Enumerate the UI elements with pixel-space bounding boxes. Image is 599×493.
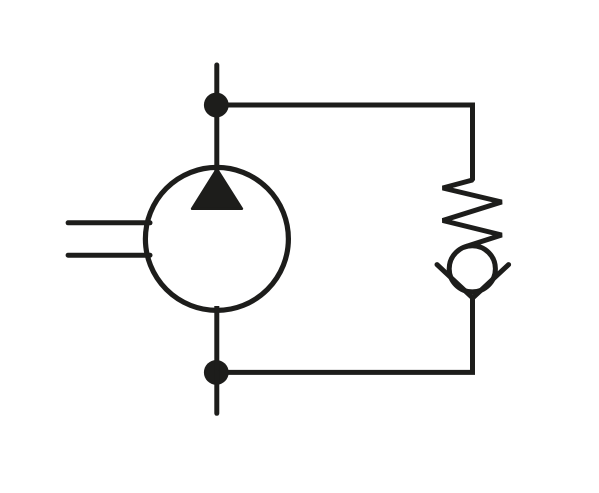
check valve ball bbox=[449, 246, 495, 292]
wire: top port stub above junction bbox=[214, 65, 219, 105]
node: bottom junction dot bbox=[204, 360, 229, 385]
wire: top horizontal run and right vertical down to spring bbox=[217, 105, 473, 180]
shaft line lower bbox=[68, 253, 150, 258]
wire: right vertical below valve to bottom corner bbox=[216, 297, 472, 372]
wire: pump inlet down to bottom junction bbox=[214, 306, 219, 372]
wire: bottom port stub below junction bbox=[214, 372, 219, 413]
pump U1: circle body bbox=[145, 167, 288, 310]
check valve seat: V arms bbox=[437, 265, 509, 298]
wire: top junction to pump outlet bbox=[214, 105, 219, 172]
spring: relief valve spring zigzag bbox=[443, 178, 502, 247]
node: top junction dot bbox=[204, 93, 229, 118]
shaft line upper bbox=[68, 220, 150, 225]
pump U1: flow-direction triangle (filled, pointing up) bbox=[192, 169, 242, 209]
